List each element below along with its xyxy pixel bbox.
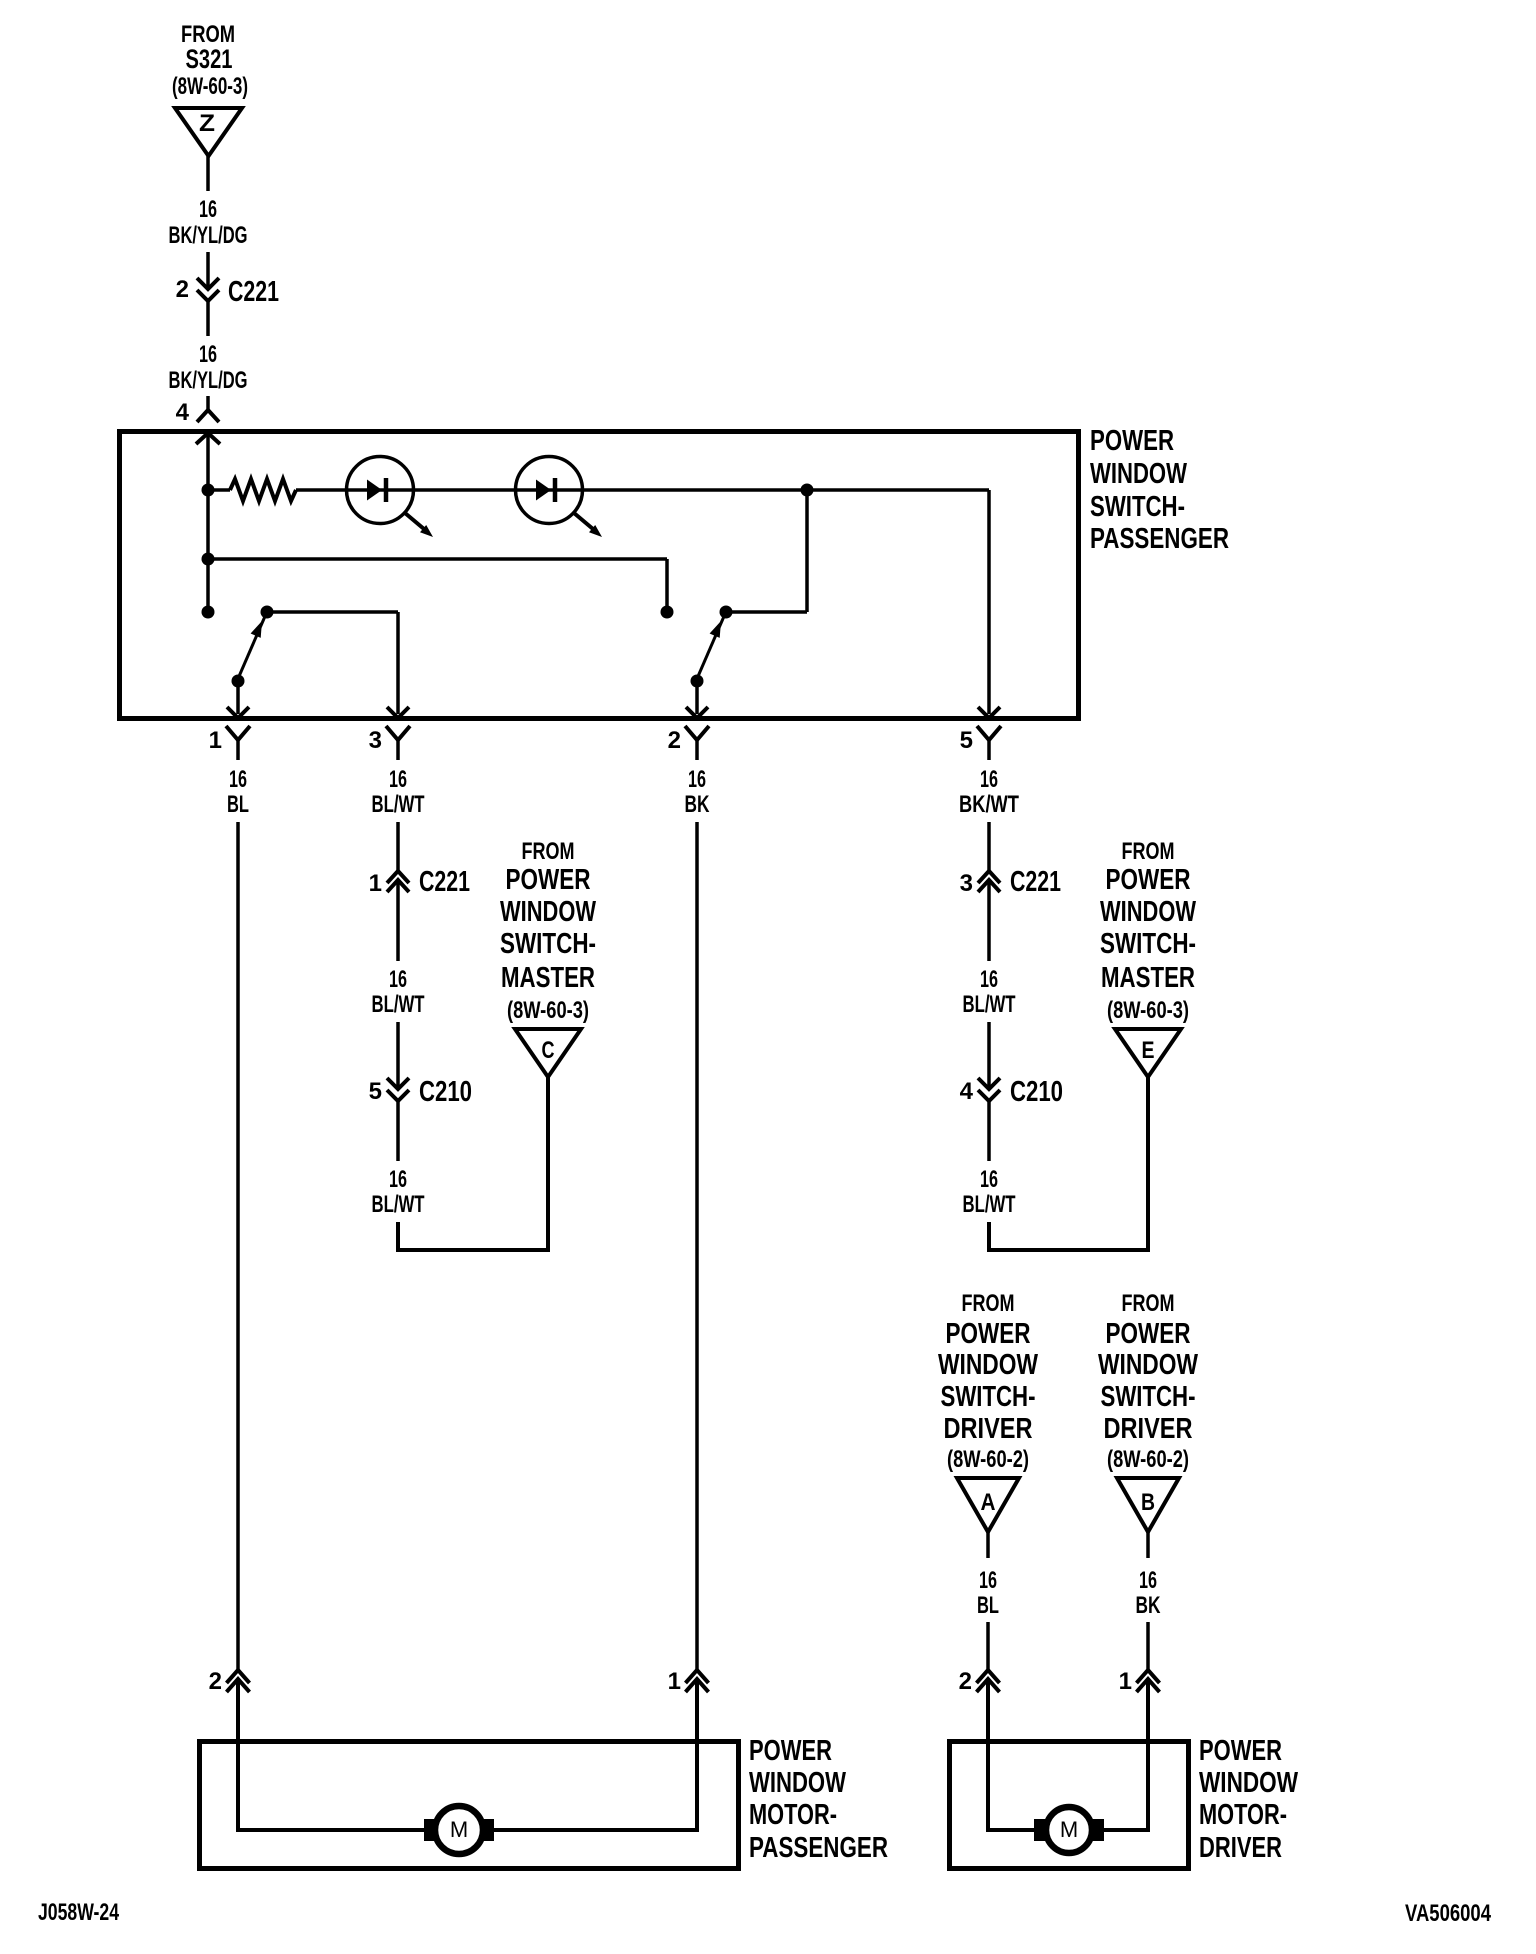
off-page connector Z triangle bbox=[175, 108, 242, 156]
wire SW1 pivot to pin1 bbox=[236, 681, 240, 714]
LED2 circle bbox=[516, 457, 583, 524]
svg-text:M: M bbox=[1060, 1817, 1078, 1842]
svg-text:POWER: POWER bbox=[506, 864, 591, 896]
motor connector pin 1 symbol bbox=[1137, 1670, 1160, 1683]
wire LED row bbox=[296, 488, 989, 492]
connector C221 pin 3 symbol bbox=[978, 871, 1000, 883]
svg-text:1: 1 bbox=[209, 727, 222, 754]
svg-text:BL/WT: BL/WT bbox=[372, 791, 425, 818]
LED1 diode bar bbox=[384, 478, 389, 502]
svg-text:16: 16 bbox=[688, 766, 706, 793]
wire SW1 contact to pin3 bbox=[267, 610, 398, 614]
wire pin 3 drop bbox=[396, 612, 400, 714]
wire to resistor bbox=[208, 488, 230, 492]
resistor R1 bbox=[230, 479, 296, 501]
LED1 diode triangle bbox=[367, 480, 382, 501]
wire pin1 run bbox=[236, 822, 240, 1670]
wire Z to label bbox=[206, 156, 210, 191]
svg-text:16: 16 bbox=[199, 196, 217, 223]
junction dot row3 bbox=[202, 606, 215, 619]
connector C221 pin 2 symbol bbox=[197, 278, 219, 289]
wire bbox=[987, 1101, 991, 1161]
svg-text:C210: C210 bbox=[419, 1076, 472, 1108]
svg-text:16: 16 bbox=[389, 766, 407, 793]
svg-text:4: 4 bbox=[960, 1078, 974, 1105]
LED2 light arrow bbox=[574, 513, 593, 529]
connector C210 pin 5 symbol bbox=[387, 1078, 409, 1089]
svg-text:FROM: FROM bbox=[1122, 1290, 1175, 1317]
wire bbox=[396, 1022, 400, 1089]
svg-text:BK: BK bbox=[685, 791, 710, 818]
svg-text:C221: C221 bbox=[1010, 866, 1061, 898]
svg-text:POWER: POWER bbox=[749, 1735, 832, 1767]
motor M2 circle bbox=[1046, 1807, 1092, 1853]
switch SW2 contact dot bbox=[720, 606, 733, 619]
svg-text:MOTOR-: MOTOR- bbox=[749, 1799, 837, 1831]
junction dot LED row / pin5 branch bbox=[801, 484, 814, 497]
wire pin2 into motor bbox=[494, 1679, 697, 1830]
svg-text:C221: C221 bbox=[419, 866, 470, 898]
wire bbox=[987, 1022, 991, 1089]
pin 3 arrow at box edge bbox=[387, 707, 409, 718]
svg-text:2: 2 bbox=[209, 1668, 222, 1695]
LED2 diode triangle bbox=[536, 480, 551, 501]
motor M1 circle bbox=[435, 1806, 483, 1854]
LED2 diode bar bbox=[553, 478, 558, 502]
svg-text:SWITCH-: SWITCH- bbox=[1090, 491, 1185, 523]
wire bbox=[1146, 1532, 1150, 1558]
svg-text:FROM: FROM bbox=[962, 1290, 1015, 1317]
svg-text:1: 1 bbox=[1119, 1668, 1132, 1695]
wire B into motor bbox=[1104, 1679, 1148, 1830]
svg-text:PASSENGER: PASSENGER bbox=[1090, 523, 1229, 555]
wire bbox=[986, 1622, 990, 1670]
pin 1 connector half bbox=[226, 726, 250, 740]
pin 2 arrow at box edge bbox=[686, 707, 708, 718]
svg-text:M: M bbox=[450, 1817, 468, 1842]
svg-text:FROM: FROM bbox=[522, 838, 575, 865]
svg-text:WINDOW: WINDOW bbox=[749, 1767, 846, 1799]
svg-text:WINDOW: WINDOW bbox=[500, 896, 596, 928]
wire pin1 into motor bbox=[238, 1679, 424, 1830]
svg-text:1: 1 bbox=[668, 1668, 681, 1695]
svg-text:C: C bbox=[542, 1037, 555, 1064]
pin 5 arrow at box edge bbox=[978, 707, 1000, 718]
LED1 circle bbox=[347, 457, 414, 524]
svg-text:(8W-60-3): (8W-60-3) bbox=[1107, 997, 1189, 1024]
pin 4 connector half bbox=[197, 410, 219, 422]
svg-text:(8W-60-3): (8W-60-3) bbox=[507, 997, 589, 1024]
svg-text:WINDOW: WINDOW bbox=[1199, 1767, 1298, 1799]
motor connector pin 2 symbol bbox=[227, 1670, 250, 1683]
svg-text:4: 4 bbox=[176, 399, 190, 426]
wire row2 horizontal bbox=[208, 557, 667, 561]
motor connector pin 1 symbol bbox=[686, 1670, 709, 1683]
wire label to pin 4 bbox=[206, 396, 210, 410]
LED1 light arrow bbox=[405, 513, 424, 529]
wire SW2 pivot to pin2 bbox=[695, 681, 699, 714]
wire junction down bbox=[805, 490, 809, 612]
svg-text:1: 1 bbox=[369, 870, 382, 897]
motor M2 right tab bbox=[1092, 1819, 1104, 1841]
wire pin3 run bbox=[396, 822, 400, 871]
wire C221 to label bbox=[206, 301, 210, 336]
connector C210 pin 4 symbol bbox=[978, 1078, 1000, 1089]
svg-text:PASSENGER: PASSENGER bbox=[749, 1832, 888, 1864]
svg-text:2: 2 bbox=[668, 727, 681, 754]
svg-text:DRIVER: DRIVER bbox=[1199, 1832, 1282, 1864]
pin 1 arrow at box edge bbox=[227, 707, 249, 718]
wire bbox=[396, 1101, 400, 1161]
svg-text:16: 16 bbox=[229, 766, 247, 793]
svg-text:FROM: FROM bbox=[1122, 838, 1175, 865]
svg-text:16: 16 bbox=[389, 966, 407, 993]
svg-text:SWITCH-: SWITCH- bbox=[941, 1381, 1036, 1413]
svg-text:BL/WT: BL/WT bbox=[963, 991, 1016, 1018]
wire label to C221 bbox=[206, 252, 210, 289]
svg-text:16: 16 bbox=[1139, 1567, 1157, 1594]
svg-text:MOTOR-: MOTOR- bbox=[1199, 1799, 1287, 1831]
wire to connector E bbox=[989, 1077, 1148, 1250]
svg-text:B: B bbox=[1141, 1489, 1155, 1516]
svg-text:WINDOW: WINDOW bbox=[1100, 896, 1196, 928]
svg-text:POWER: POWER bbox=[1106, 1318, 1191, 1350]
wire bbox=[987, 880, 991, 961]
pin 2 connector half bbox=[685, 726, 709, 740]
svg-text:3: 3 bbox=[369, 727, 382, 754]
switch SW1 pivot dot bbox=[232, 675, 245, 688]
svg-text:DRIVER: DRIVER bbox=[944, 1413, 1033, 1445]
off-page connector A triangle bbox=[957, 1478, 1019, 1532]
svg-text:SWITCH-: SWITCH- bbox=[1101, 1381, 1196, 1413]
svg-text:BL/WT: BL/WT bbox=[372, 1191, 425, 1218]
wire pin 5 drop bbox=[987, 490, 991, 714]
svg-text:MASTER: MASTER bbox=[1101, 962, 1195, 994]
svg-text:(8W-60-2): (8W-60-2) bbox=[947, 1446, 1029, 1473]
svg-text:C221: C221 bbox=[228, 276, 279, 308]
svg-text:16: 16 bbox=[980, 1166, 998, 1193]
off-page connector E triangle bbox=[1115, 1029, 1181, 1077]
svg-text:SWITCH-: SWITCH- bbox=[500, 928, 596, 960]
svg-text:POWER: POWER bbox=[1090, 425, 1174, 457]
wire pin5 run bbox=[987, 822, 991, 871]
wire A into motor bbox=[988, 1679, 1034, 1830]
junction dot row2 bbox=[202, 553, 215, 566]
junction dot feed/resistor bbox=[202, 484, 215, 497]
wire SW2 contact right bbox=[726, 610, 807, 614]
svg-text:MASTER: MASTER bbox=[501, 962, 595, 994]
switch SW1 contact dot bbox=[261, 606, 274, 619]
svg-text:VA506004: VA506004 bbox=[1405, 1900, 1491, 1927]
svg-text:BK/WT: BK/WT bbox=[959, 791, 1019, 818]
wire pin2 run bbox=[695, 822, 699, 1670]
svg-text:WINDOW: WINDOW bbox=[938, 1349, 1038, 1381]
svg-text:(8W-60-2): (8W-60-2) bbox=[1107, 1446, 1189, 1473]
svg-text:BL/WT: BL/WT bbox=[372, 991, 425, 1018]
svg-text:5: 5 bbox=[960, 727, 973, 754]
wire row2 drop bbox=[665, 559, 669, 612]
svg-text:BK/YL/DG: BK/YL/DG bbox=[169, 367, 248, 394]
svg-text:2: 2 bbox=[176, 276, 189, 303]
switch SW2 arm bbox=[696, 614, 725, 681]
svg-text:5: 5 bbox=[369, 1078, 382, 1105]
pin 5 connector half bbox=[977, 726, 1001, 740]
svg-text:SWITCH-: SWITCH- bbox=[1100, 928, 1196, 960]
component box power window motor driver bbox=[950, 1742, 1189, 1869]
svg-text:BL: BL bbox=[227, 791, 249, 818]
svg-text:3: 3 bbox=[960, 870, 973, 897]
motor connector pin 2 symbol bbox=[977, 1670, 1000, 1683]
wire internal feed bus bbox=[206, 433, 210, 612]
pin 4 arrow inside box bbox=[196, 433, 220, 444]
svg-text:POWER: POWER bbox=[946, 1318, 1031, 1350]
off-page connector B triangle bbox=[1117, 1478, 1179, 1532]
switch SW2 pivot dot bbox=[691, 675, 704, 688]
svg-text:POWER: POWER bbox=[1199, 1735, 1282, 1767]
pin 3 connector half bbox=[386, 726, 410, 740]
svg-text:16: 16 bbox=[389, 1166, 407, 1193]
terminal dot switch2 throw left bbox=[661, 606, 674, 619]
wire to connector C bbox=[398, 1077, 548, 1250]
svg-text:16: 16 bbox=[980, 966, 998, 993]
motor M1 left tab bbox=[424, 1819, 436, 1841]
svg-text:BK/YL/DG: BK/YL/DG bbox=[169, 222, 248, 249]
svg-text:S321: S321 bbox=[186, 44, 233, 74]
switch SW1 arm bbox=[237, 614, 266, 681]
off-page connector C triangle bbox=[515, 1029, 581, 1077]
svg-text:Z: Z bbox=[199, 110, 215, 137]
svg-text:A: A bbox=[981, 1489, 996, 1516]
motor M1 right tab bbox=[482, 1819, 494, 1841]
component box power window motor passenger bbox=[200, 1742, 739, 1869]
svg-text:16: 16 bbox=[980, 766, 998, 793]
svg-text:16: 16 bbox=[199, 341, 217, 368]
svg-text:POWER: POWER bbox=[1106, 864, 1191, 896]
svg-text:BL: BL bbox=[977, 1592, 999, 1619]
svg-text:E: E bbox=[1142, 1037, 1155, 1064]
connector C221 pin 1 symbol bbox=[387, 871, 409, 883]
svg-text:WINDOW: WINDOW bbox=[1090, 458, 1187, 490]
svg-text:2: 2 bbox=[959, 1668, 972, 1695]
svg-text:WINDOW: WINDOW bbox=[1098, 1349, 1198, 1381]
svg-text:(8W-60-3): (8W-60-3) bbox=[172, 73, 248, 100]
motor M2 left tab bbox=[1034, 1819, 1046, 1841]
wire bbox=[396, 880, 400, 961]
svg-text:16: 16 bbox=[979, 1567, 997, 1594]
svg-text:J058W-24: J058W-24 bbox=[38, 1899, 119, 1926]
svg-text:BK: BK bbox=[1136, 1592, 1161, 1619]
svg-text:DRIVER: DRIVER bbox=[1104, 1413, 1193, 1445]
component box power window switch passenger bbox=[120, 432, 1079, 719]
wire bbox=[1146, 1622, 1150, 1670]
svg-text:BL/WT: BL/WT bbox=[963, 1191, 1016, 1218]
svg-text:C210: C210 bbox=[1010, 1076, 1063, 1108]
wire bbox=[986, 1532, 990, 1558]
